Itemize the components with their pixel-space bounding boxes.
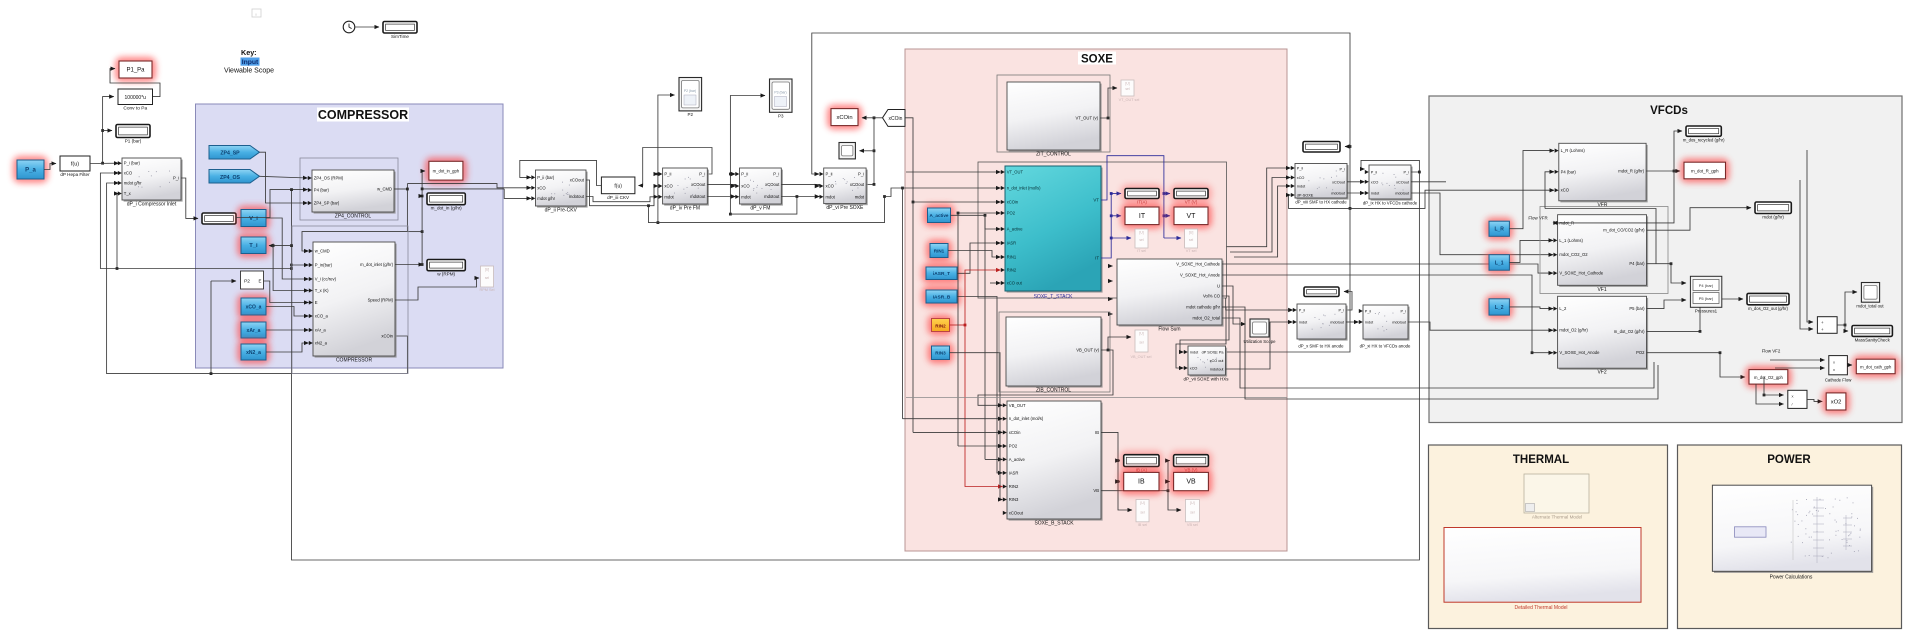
wire xCO loop around compressor [107,183,408,374]
svg-text:SOXE_B_STACK: SOXE_B_STACK [1034,521,1074,527]
subsystem VFR [1560,145,1647,203]
svg-text:m_dot_inlet (g/hr): m_dot_inlet (g/hr) [360,262,393,267]
svg-text:mdot: mdot [1297,185,1306,189]
subsystem ZP4_CONTROL [314,172,396,214]
svg-text:dP Hepa Filter: dP Hepa Filter [60,172,90,177]
wire w_CMD routing [394,188,407,190]
block Cathode Flow [1829,356,1848,375]
svg-text:V_SOXE_Hot_Cathode: V_SOXE_Hot_Cathode [1176,262,1220,267]
svg-text:xCO out: xCO out [1007,281,1023,286]
block xO2 [1822,389,1850,414]
block xCO_a [237,294,270,319]
svg-text:RIN1: RIN1 [934,248,945,253]
svg-text:P_ii: P_ii [1297,167,1303,171]
wire clock to SimTime [355,26,379,28]
svg-text:ZIB_CONTROL: ZIB_CONTROL [1036,388,1071,394]
wires inputs to compressor [266,218,309,279]
svg-text:mdot g/hr: mdot g/hr [124,181,142,186]
svg-text:w_CMD: w_CMD [377,187,392,192]
svg-text:mdot_R (g/hr): mdot_R (g/hr) [1618,169,1644,174]
group box ZIT [997,75,1110,152]
svg-text:P_ii: P_ii [1299,309,1305,313]
wire pressure to VFR xCO [1350,190,1554,208]
svg-text:P_i: P_i [1401,310,1407,314]
svg-text:L_2: L_2 [1495,305,1504,311]
clock [343,21,355,33]
svg-text:ZP4_CONTROL: ZP4_CONTROL [335,214,372,220]
wires divide [1764,394,1784,396]
faint VB sel [1185,500,1199,522]
block m_dot_O2_gph [1745,366,1792,389]
svg-text:P4 (bar): P4 (bar) [1699,283,1714,288]
svg-text:xCOin: xCOin [836,115,852,121]
svg-text:E: E [315,300,318,305]
svg-text:mdot_total out: mdot_total out [1856,304,1884,309]
subsystem COMPRESSOR [315,244,397,358]
subsystem area POWER [1678,445,1902,629]
wire P_a to f(u) [44,164,56,170]
wire conv to P1_Pa loop [110,69,160,97]
svg-text:m_dot_R_gph: m_dot_R_gph [1691,169,1719,174]
svg-text:VT_OUT: VT_OUT [1007,170,1024,175]
svg-text:P_a: P_a [25,167,36,173]
svg-text:P2: P2 [244,279,250,285]
svg-text:P_ii (bar): P_ii (bar) [537,175,555,180]
svg-text:dP_vi Pre SOXE: dP_vi Pre SOXE [826,205,864,211]
subsystem dP_i Compressor Inlet [124,160,183,202]
svg-text:T_x (K): T_x (K) [315,288,329,293]
svg-text:w (RPM): w (RPM) [437,272,455,277]
navy wire IT rail [1101,194,1111,259]
scope Utilization [1250,319,1269,337]
svg-text:xCO: xCO [664,184,673,189]
wire dP-SOXE input feed [1289,195,1351,208]
svg-text:P_i: P_i [1404,171,1410,175]
svg-text:dP SOXE Pa: dP SOXE Pa [1202,351,1225,355]
svg-text:U: U [1217,284,1220,289]
svg-text:iASR_B: iASR_B [933,294,951,300]
svg-text:Pressures1: Pressures1 [1695,309,1718,314]
wire P_in feed from P4 rail [290,264,293,267]
svg-text:f(u): f(u) [614,183,622,189]
svg-text:RIN3: RIN3 [1009,497,1019,502]
display SimTime [383,22,417,34]
svg-text:RIN2: RIN2 [935,324,946,329]
faint IB sel [1136,500,1149,522]
svg-text:dP_v FM: dP_v FM [750,206,770,212]
svg-text:100000*u: 100000*u [125,95,147,101]
svg-text:P_i: P_i [1340,167,1346,171]
wire dP_i out to display [181,178,198,218]
wires SOXE inputs [951,215,1001,229]
svg-text:iASR: iASR [1009,470,1019,475]
svg-text:xCO: xCO [741,184,750,189]
wire dP_ix xCOout stub [1411,181,1446,183]
svg-text:L_1: L_1 [1495,260,1504,266]
svg-text:L_2: L_2 [1559,306,1567,311]
svg-text:dP-SOXE: dP-SOXE [1297,194,1314,198]
faint IT sel [1135,229,1148,248]
svg-text:xCOout: xCOout [1009,510,1024,515]
subsystem SOXE_T_STACK [1007,168,1103,293]
subsystem area THERMAL [1429,445,1668,629]
svg-text:P4 (bar): P4 (bar) [1629,261,1645,266]
svg-text:mdot: mdot [855,194,865,199]
svg-text:V_i (cc/rev): V_i (cc/rev) [315,277,337,282]
svg-text:xCO_a: xCO_a [246,304,262,310]
svg-text:+: + [1821,327,1824,332]
svg-text:m_dot_CO/CO2 (g/hr): m_dot_CO/CO2 (g/hr) [1603,228,1645,233]
svg-text:VT: VT [1093,198,1099,203]
svg-text:[U]: [U] [1140,501,1145,505]
wire VF2 m_dot_O2 to display [1647,299,1744,331]
svg-text:PO2: PO2 [1636,350,1645,355]
svg-text:VT_OUT (v): VT_OUT (v) [1076,116,1099,121]
display P1 (bar) [116,125,150,138]
wire m_dot rail [395,264,423,266]
svg-text:xCOout: xCOout [570,178,585,183]
svg-text:xCO: xCO [124,171,133,176]
svg-text:IB: IB [1095,430,1099,435]
wire RIN3 down [950,353,1003,500]
wire L_R to VFR [1509,151,1554,229]
svg-text:xCOin: xCOin [889,116,903,122]
wire pressure into display [1345,146,1350,148]
block L_2 [1485,295,1513,319]
display m_dos_recycled [1686,126,1721,136]
wires dP_v to dP_vi [781,184,819,186]
wire PO2 rail [958,212,1001,214]
svg-text:mdot: mdot [826,194,836,199]
wires dP_iv to dP_v [707,184,735,186]
wire P3 feed rail [730,96,765,215]
wire L_2 to VF2 [1509,307,1553,309]
wires dP_viii to dP_ix [1347,181,1365,183]
display mdot (g/hr) [1755,202,1791,214]
group box ZIB [999,312,1110,392]
svg-text:P2 (bar): P2 (bar) [684,89,696,93]
group box T stack [978,162,1227,298]
svg-text:Utilization Scope: Utilization Scope [1243,339,1276,344]
block xN2_a [237,340,270,364]
svg-text:P_ii: P_ii [826,172,833,177]
svg-text:V_SOXE_Hot_Cathode: V_SOXE_Hot_Cathode [1559,271,1603,276]
svg-text:P_i (bar): P_i (bar) [124,161,141,166]
svg-text:P2: P2 [688,112,694,117]
svg-text:mdotout: mdotout [569,194,585,199]
svg-text:L_R (Lohms): L_R (Lohms) [1561,148,1586,153]
svg-text:P_i: P_i [1339,309,1345,313]
svg-text:w_CMD: w_CMD [315,249,330,254]
block RIN2 orange [928,315,954,336]
svg-text:PO2: PO2 [1007,211,1016,216]
svg-text:[U]: [U] [1125,82,1130,86]
subsystem dP_ii Pre-CKV [537,172,588,208]
wire dP_xi mdotout to VF2 [1408,322,1553,330]
svg-text:m_dot_O2 (g/hr): m_dot_O2 (g/hr) [1614,329,1645,334]
svg-text:ZP4_OS (RPM): ZP4_OS (RPM) [314,176,344,181]
svg-text:VFR: VFR [1597,202,1607,208]
svg-text:xCO: xCO [826,184,835,189]
svg-text:PO2: PO2 [1009,444,1018,449]
svg-text:m_dot_cath_gph: m_dot_cath_gph [1860,364,1892,369]
svg-text:P5 (bar): P5 (bar) [1629,306,1645,311]
svg-text:sel: sel [1139,238,1144,242]
block IB [1120,468,1163,494]
svg-text:VB: VB [1186,479,1196,486]
svg-text:mdot: mdot [1371,192,1380,196]
group box ZP4_CONTROL [300,158,398,220]
subsystem dP_vi Pre SOXE [825,170,867,206]
svg-text:T_x: T_x [124,191,132,196]
block A_active [924,204,955,227]
svg-text:VB_OUT sel: VB_OUT sel [1130,355,1151,359]
block dP_iii CKV f(u) [601,177,635,194]
faint VT sel [1185,229,1198,248]
svg-text:dP_xi HX to VFCDs anode: dP_xi HX to VFCDs anode [1360,344,1411,349]
svg-text:xCOout: xCOout [1396,180,1410,184]
wire VF1 P4 up to VFR rail [1545,209,1656,264]
wire P2 feed rail [658,95,675,223]
block RIN3 [928,342,954,364]
wire xCO return rail [100,173,291,269]
svg-text:E: E [259,279,262,284]
wire xCO out stubs [990,282,1001,284]
block T_i [237,233,270,258]
svg-text:[U]: [U] [1189,231,1194,235]
wire VFR P4 feedback [1647,263,1672,265]
svg-text:Flow VFR: Flow VFR [1528,216,1547,221]
svg-text:V_SOXE_Hot_Anode: V_SOXE_Hot_Anode [1180,273,1221,278]
subsystem dP_ix HX to VFCDs cathode [1371,167,1413,201]
svg-text:T_i: T_i [249,243,258,249]
svg-text:Power Calculations: Power Calculations [1770,575,1813,581]
wires IB VB rails [1101,432,1120,460]
svg-text:mdotout: mdotout [1392,321,1407,325]
svg-text:xN2_a: xN2_a [246,350,261,356]
svg-text:sel: sel [1140,510,1145,514]
wire ZIT out to sel [1100,88,1117,118]
wire rail to dP_x P_ii [1226,298,1293,310]
svg-text:mdotout: mdotout [1210,368,1225,372]
svg-text:COMPRESSOR: COMPRESSOR [336,358,373,364]
svg-text:VF1: VF1 [1597,287,1606,293]
display w (RPM) [427,260,465,271]
svg-text:P_ii: P_ii [1365,310,1371,314]
subsystem dP_iv Pre FM [664,170,709,206]
svg-text:ZIT_CONTROL: ZIT_CONTROL [1036,152,1071,158]
svg-text:P_ii: P_ii [664,172,671,177]
block m_dot_in_gph [425,157,467,184]
wire dP_x to dP_xi [1346,321,1359,323]
svg-text:IT sel: IT sel [1137,249,1146,253]
tag xCOin from [883,110,906,127]
wire CKV loop to dP_ii P_ii [520,160,602,185]
subsystem dP_xi HX to VFCDs anode [1365,307,1410,341]
svg-text:xCOin: xCOin [381,334,393,339]
svg-text:P_ii: P_ii [1371,171,1377,175]
svg-text:P_i: P_i [858,172,864,177]
wire xCO rail up [866,183,874,185]
svg-text:xCO_a: xCO_a [315,314,329,319]
block Alternate Thermal Model [1524,474,1589,513]
wires dP_ii outputs to dP_iv [586,180,658,206]
navy wire VT to displays [1101,156,1164,238]
svg-text:mdot cathode g/hr: mdot cathode g/hr [1186,305,1220,310]
wire compressor exit rails [407,184,531,188]
svg-text:ZP4_OS: ZP4_OS [220,175,240,181]
svg-text:RIN2: RIN2 [1009,484,1019,489]
svg-text:P1 (bar): P1 (bar) [125,139,142,144]
svg-text:VB_OUT: VB_OUT [1009,403,1026,408]
block xCOin goto [827,105,862,130]
svg-text:mdotout: mdotout [1395,192,1410,196]
wire L_1 to VF1 [1509,240,1553,262]
block m_dot_cath_gph [1852,355,1899,378]
svg-text:xO2: xO2 [1831,399,1842,405]
svg-text:dP_x SMF to HX anode: dP_x SMF to HX anode [1298,344,1344,349]
display VT (V) [1170,185,1212,203]
svg-text:m_dos_O2_out (g/hr): m_dos_O2_out (g/hr) [1748,306,1788,311]
wire E feedback from below [211,280,236,282]
svg-text:dP_iv Pre FM: dP_iv Pre FM [670,206,700,212]
block dP Hepa Filter [60,156,90,171]
svg-text:A_active: A_active [1009,457,1026,462]
wires top stack inputs [906,171,1001,173]
svg-text:IT: IT [1095,256,1099,261]
subsystem ZIT_CONTROL [1009,84,1102,152]
svg-text:sel: sel [485,276,490,280]
svg-text:VT sel: VT sel [1186,249,1197,253]
svg-text:xCO out: xCO out [1210,359,1225,363]
svg-text:Speed (RPM): Speed (RPM) [368,298,394,303]
svg-text:P_i: P_i [173,176,179,181]
svg-text:xAr_a: xAr_a [247,328,261,334]
svg-text:m_dot_in_gph: m_dot_in_gph [433,169,460,174]
svg-text:xCO: xCO [1297,176,1305,180]
group box VF1 [1540,207,1668,294]
subsystem area COMPRESSOR [196,104,504,368]
subsystem Flow Sum [1119,261,1224,327]
svg-text:+: + [1821,320,1824,325]
svg-text:THERMAL: THERMAL [1513,454,1569,466]
block P_a input [13,156,48,183]
wires ZP4 tags to control [260,176,308,178]
wire VF2 PO2 [1647,353,1746,377]
subsystem dP_x SMF to HX anode [1299,306,1348,341]
svg-text:mdot (g/hr): mdot (g/hr) [1762,215,1784,220]
display Pressures1 [1690,276,1721,307]
svg-text:m_dot_in (g/hr): m_dot_in (g/hr) [431,206,463,211]
svg-text:P3 (bar): P3 (bar) [774,91,786,95]
block VT [1170,203,1212,229]
wire into CKV from dP_iv P_i [639,148,713,186]
svg-text:IT: IT [1139,213,1146,220]
svg-text:Key:: Key: [241,48,257,57]
svg-text:P1_Pa: P1_Pa [126,68,145,74]
svg-text:f(u): f(u) [71,162,79,168]
svg-text:n_dot_inlet (mol/s): n_dot_inlet (mol/s) [1007,186,1041,191]
wire dP_vii mdotout to dP_x [1226,322,1293,369]
svg-text:L_1 (Lohms): L_1 (Lohms) [1559,238,1583,243]
display anode row [1304,287,1339,297]
svg-text:Detailed Thermal Model: Detailed Thermal Model [1515,605,1568,611]
svg-text:mdotout: mdotout [690,194,706,199]
display MassSanityCheck [1852,326,1892,337]
display VB (V) [1170,451,1213,471]
faint VB_OUT sel [1135,330,1148,352]
svg-text:dP_vii SOXE with HXs: dP_vii SOXE with HXs [1183,377,1229,382]
svg-text:x: x [1833,360,1835,365]
wire dP_ix P_i loop [1361,160,1419,172]
wire T_x stub [117,194,119,269]
svg-text:xCO: xCO [537,185,546,190]
scope mdot_total out [1861,283,1879,303]
svg-text:P4 (bar): P4 (bar) [314,188,330,193]
bus rails below [730,197,797,215]
svg-text:Input: Input [242,59,259,66]
block P2 E [241,271,264,289]
svg-text:xCOin: xCOin [1007,200,1019,205]
svg-text:n_dot_inlet (mol/s): n_dot_inlet (mol/s) [1009,416,1044,421]
wire junction rail into conv/display/dP_i [103,97,114,164]
wire dP SOXE pressure loop to top [812,33,1350,352]
subsystem dP_vii SOXE with HXs [1190,348,1228,377]
svg-text:RIN1: RIN1 [1007,255,1017,260]
svg-text:VB: VB [1093,488,1099,493]
svg-text:Vol% CO: Vol% CO [1203,294,1221,299]
svg-text:iASR_T: iASR_T [933,271,950,277]
svg-text:xCO: xCO [1190,367,1198,371]
subsystem SOXE_B_STACK [1009,403,1103,521]
svg-text:Cathode Flow: Cathode Flow [1825,378,1852,383]
wire f(u) to dP_i [90,162,119,164]
svg-text:Flow VF2: Flow VF2 [1762,349,1781,354]
faint VT_OUT sel [1121,80,1134,96]
svg-text:IB: IB [1138,479,1145,486]
svg-text:dP_i Compressor Inlet: dP_i Compressor Inlet [127,202,177,208]
subsystem dP_v FM [741,170,783,206]
svg-text:sel: sel [1190,510,1195,514]
svg-text:P_i: P_i [773,172,779,177]
svg-text:x: x [1833,367,1835,372]
display m_dos_O2_out [1747,293,1789,304]
svg-text:ZP4_SP: ZP4_SP [220,151,240,157]
svg-text:mdot g/hr: mdot g/hr [537,196,555,201]
wires right cluster [1807,150,1813,322]
block sum [1817,317,1837,334]
long lower rails [1222,318,1654,388]
subsystem dP_viii SMF to HX cathode [1297,165,1349,200]
display IT(A) [1121,185,1163,203]
wire w_CMD rail to displays [407,231,422,233]
wire mdot_R to gph and recycled display [1674,170,1680,172]
svg-text:m_dos_recycled (g/hr): m_dos_recycled (g/hr) [1683,137,1725,142]
wires cathode flow [1770,359,1825,361]
svg-text:xCOin: xCOin [1009,430,1021,435]
svg-text:VT: VT [1187,213,1197,220]
svg-text:VB_OUT (v): VB_OUT (v) [1076,348,1099,353]
svg-text:mdot: mdot [741,194,751,199]
svg-text:P_in(bar): P_in(bar) [315,263,333,268]
svg-text:mdot: mdot [1365,321,1374,325]
svg-text:L_R: L_R [1494,227,1504,233]
svg-text:VT_OUT sel: VT_OUT sel [1119,98,1140,102]
scope small [839,143,855,159]
block L_1 [1485,251,1513,275]
svg-text:SOXE_T_STACK: SOXE_T_STACK [1034,294,1073,300]
svg-text:sel: sel [1139,341,1144,345]
